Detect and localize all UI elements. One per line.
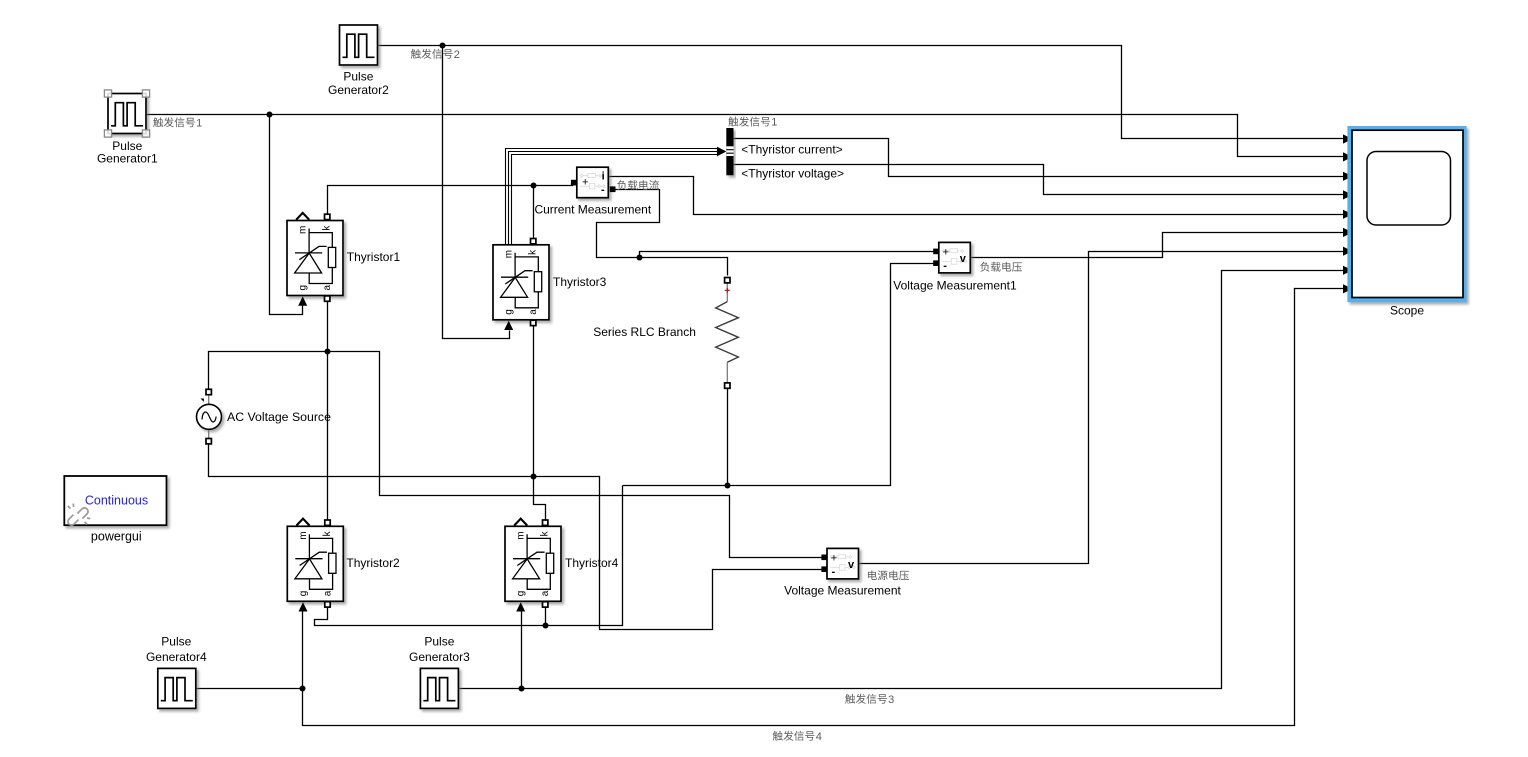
svg-text:powergui: powergui xyxy=(91,529,142,543)
polarity mark + xyxy=(725,288,730,293)
svg-text:Series RLC Branch: Series RLC Branch xyxy=(593,325,696,339)
svg-text:m: m xyxy=(298,531,309,539)
pulse generator PG4 xyxy=(158,668,196,708)
net label source-voltage xyxy=(868,570,909,580)
VM - port xyxy=(821,566,827,572)
wire trigger-signal-1 from PG1 to Scope in2 xyxy=(147,115,1345,157)
svg-text:m: m xyxy=(504,250,515,258)
wire net-B AC- bus xyxy=(209,444,534,477)
svg-text:+: + xyxy=(582,177,588,189)
broken link icon xyxy=(68,504,91,526)
svg-text:a: a xyxy=(322,590,333,596)
wire PG4 output xyxy=(196,688,303,690)
svg-text:<Thyristor current>: <Thyristor current> xyxy=(741,142,842,156)
voltage measurement VM (source) xyxy=(827,548,859,579)
svg-text:-: - xyxy=(601,184,605,196)
VM + port xyxy=(821,555,827,561)
wire net-A to Thyristor1 a xyxy=(327,301,329,352)
svg-text:a: a xyxy=(322,284,333,290)
wire Series RLC bottom to load return bus xyxy=(727,389,729,486)
pulse generator PG3 xyxy=(420,668,458,708)
junction net-A node xyxy=(325,349,331,355)
wire bus selector out1 Thyristor-current to Scope in3 xyxy=(734,139,1345,177)
wire Thyristor3 k riser xyxy=(533,186,535,240)
svg-text:Pulse: Pulse xyxy=(161,635,191,649)
wire load return bus xyxy=(623,264,935,486)
svg-text:i: i xyxy=(602,170,605,182)
bus wire Thyristor3 m to Bus Selector xyxy=(506,149,718,245)
net label trigger-signal-3 xyxy=(845,694,887,704)
svg-text:2: 2 xyxy=(454,49,460,61)
wire source-voltage v out to Scope in7 xyxy=(859,252,1345,564)
junction net-B node xyxy=(531,474,537,480)
junction Thyristor4 a node xyxy=(543,623,549,629)
svg-text:a: a xyxy=(540,590,551,596)
svg-text:Thyristor2: Thyristor2 xyxy=(346,556,400,570)
junction trigger1 branch xyxy=(267,112,273,118)
resistor Series RLC Branch xyxy=(716,278,739,389)
svg-text:g: g xyxy=(504,309,515,315)
wire trigger-signal-3 branch to Thyristor4 gate xyxy=(521,612,523,689)
svg-text:v: v xyxy=(848,559,855,571)
svg-text:+: + xyxy=(831,553,837,565)
svg-text:Generator2: Generator2 xyxy=(328,83,389,97)
wire bus selector out2 Thyristor-voltage to Scope in4 xyxy=(734,165,1345,195)
svg-text:Pulse: Pulse xyxy=(343,70,373,84)
junction trigger3 branch xyxy=(519,686,525,692)
wire anode bus Thyristor2a-Thyristor4a xyxy=(315,486,623,626)
bus arrow into Bus Selector xyxy=(717,147,726,157)
wire trigger-signal-3 from PG3 to Scope in8 xyxy=(459,271,1345,689)
svg-text:Thyristor4: Thyristor4 xyxy=(565,556,619,570)
svg-text:Scope: Scope xyxy=(1390,304,1424,318)
svg-text:m: m xyxy=(516,531,527,539)
junction k-bus node xyxy=(531,183,537,189)
svg-text:Voltage Measurement1: Voltage Measurement1 xyxy=(893,278,1017,292)
junction load node A xyxy=(637,255,643,261)
wire load-current i out to Scope in5 xyxy=(609,177,1345,215)
wire Thyristor4 a drop xyxy=(545,608,547,626)
svg-text:Generator4: Generator4 xyxy=(146,650,207,664)
svg-text:v: v xyxy=(960,253,967,265)
svg-text:g: g xyxy=(298,285,309,291)
wire Thyristor1 k to Current Measurement + xyxy=(328,183,577,215)
svg-text:Continuous: Continuous xyxy=(85,494,148,508)
svg-text:a: a xyxy=(528,309,539,315)
junction trigger4 branch xyxy=(300,686,306,692)
svg-text:1: 1 xyxy=(771,117,777,129)
wire net-B to Thyristor4 k xyxy=(534,477,546,521)
wire net-B to Thyristor3 a xyxy=(533,323,535,477)
wire net-B to Voltage Measurement - xyxy=(534,477,823,630)
wire Voltage Measurement1 v out to Scope in6 xyxy=(971,233,1345,258)
net label load-current xyxy=(617,180,659,190)
net label trigger-signal-1 (at bus selector) xyxy=(728,117,770,127)
wire Current Measurement - to Series RLC top xyxy=(597,190,728,276)
svg-text:Current Measurement: Current Measurement xyxy=(534,203,651,217)
svg-text:-: - xyxy=(832,566,836,578)
junction load return node xyxy=(725,483,731,489)
svg-text:m: m xyxy=(298,226,309,234)
net label trigger-signal-1 (at PG1) xyxy=(153,117,195,127)
svg-text:Voltage Measurement: Voltage Measurement xyxy=(784,584,901,598)
wire net-A AC+ bus xyxy=(209,352,823,558)
powergui block xyxy=(64,476,166,525)
svg-text:g: g xyxy=(298,591,309,597)
wire trigger-signal-1 branch to Thyristor1 gate xyxy=(270,115,303,315)
svg-text:Thyristor1: Thyristor1 xyxy=(347,250,401,264)
thyristor T1 xyxy=(287,213,343,306)
wire trigger-signal-4 to Scope in9 xyxy=(303,289,1345,726)
thyristor T3 xyxy=(493,239,549,331)
net label trigger-signal-2 xyxy=(411,49,453,59)
thyristor T2 xyxy=(287,519,343,612)
svg-text:+: + xyxy=(943,247,949,259)
current measurement CM xyxy=(577,167,609,198)
VM1 - port xyxy=(933,260,939,266)
svg-text:1: 1 xyxy=(196,117,202,129)
svg-text:<Thyristor voltage>: <Thyristor voltage> xyxy=(741,167,844,181)
VM1 + port xyxy=(933,249,939,255)
wire trigger-signal-4 branch to Thyristor2 gate xyxy=(302,612,304,689)
pulse generator PG2 xyxy=(340,25,378,65)
svg-text:AC Voltage Source: AC Voltage Source xyxy=(227,410,331,424)
scope block (selected) xyxy=(1347,126,1466,302)
wire trigger-signal-2 from PG2 to Scope in1 xyxy=(378,46,1345,139)
svg-text:-: - xyxy=(943,260,947,272)
thyristor T4 xyxy=(505,519,561,612)
CM - port xyxy=(610,186,616,192)
svg-text:Pulse: Pulse xyxy=(424,635,454,649)
junction trigger2 branch xyxy=(440,43,446,49)
bus selector U1 xyxy=(726,128,733,175)
svg-text:Generator3: Generator3 xyxy=(409,650,470,664)
wire branch to Voltage Measurement1 + xyxy=(640,252,935,258)
wire trigger-signal-2 branch to Thyristor3 gate xyxy=(443,46,510,339)
net label load-voltage xyxy=(980,262,1022,272)
svg-text:3: 3 xyxy=(888,694,894,706)
wire net-A to Thyristor2 k xyxy=(327,352,329,521)
svg-text:Thyristor3: Thyristor3 xyxy=(553,275,607,289)
pulse generator PG1 (selected) xyxy=(104,90,149,137)
CM + port xyxy=(571,180,577,186)
svg-text:g: g xyxy=(516,591,527,597)
svg-text:Generator1: Generator1 xyxy=(97,152,158,166)
svg-text:4: 4 xyxy=(816,731,822,743)
AC voltage source V1 xyxy=(197,389,222,444)
voltage measurement VM1 xyxy=(939,242,971,273)
net label trigger-signal-4 xyxy=(773,731,815,741)
